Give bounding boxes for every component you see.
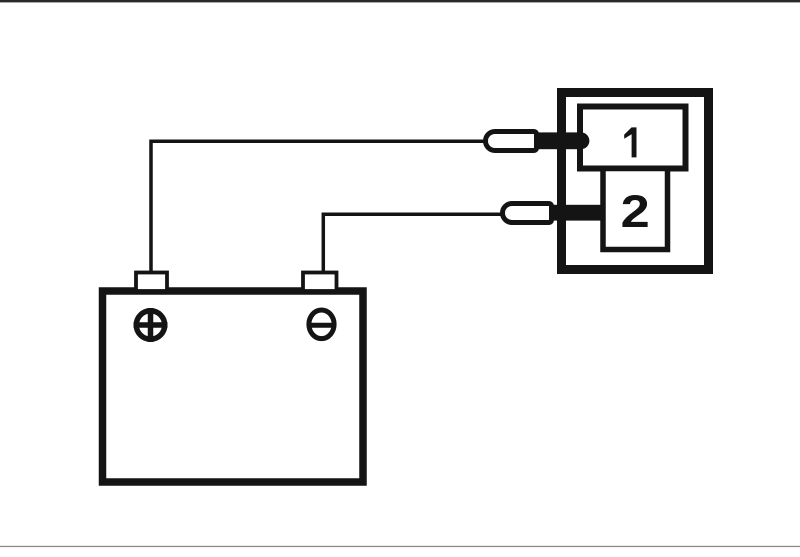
battery positive symbol	[134, 308, 168, 342]
battery negative symbol	[308, 310, 335, 339]
probe connector pin 2	[503, 204, 552, 223]
terminal stub pin 1	[537, 132, 589, 149]
pin label 1	[624, 127, 636, 157]
battery negative terminal post	[303, 273, 337, 292]
connector housing	[562, 93, 709, 270]
wire negative lead	[323, 214, 503, 275]
terminal stub pin 2	[551, 205, 603, 221]
connector cavity 2	[603, 169, 668, 250]
svg-text:2: 2	[621, 187, 650, 237]
connector cavity 1	[580, 107, 686, 169]
pin label 2	[621, 187, 650, 237]
probe connector pin 1	[486, 132, 537, 151]
wire positive lead	[151, 141, 486, 275]
battery	[103, 291, 364, 482]
battery positive terminal post	[136, 273, 167, 292]
